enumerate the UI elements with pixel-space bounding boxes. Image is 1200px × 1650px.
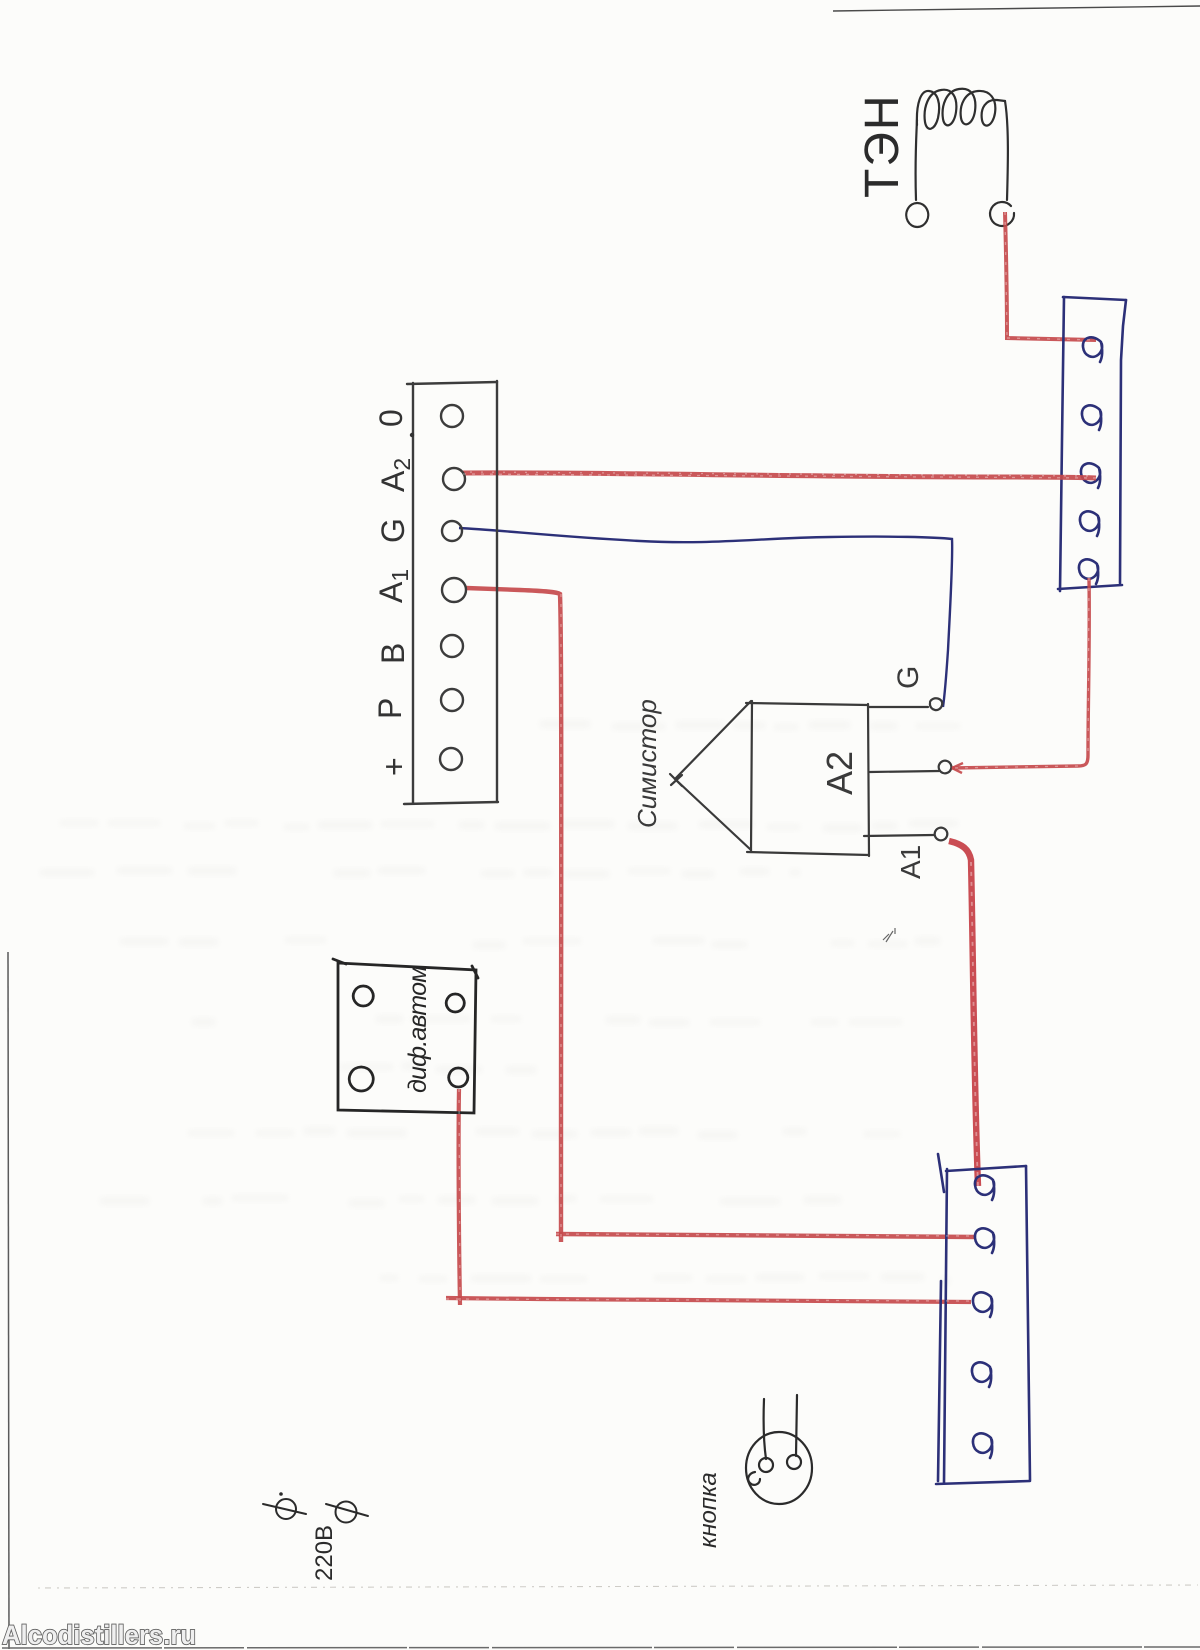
svg-text:Симистор: Симистор [632, 699, 662, 828]
svg-text:G: G [892, 666, 925, 689]
svg-text:диф.автом: диф.автом [404, 966, 432, 1093]
svg-text:кнопка: кнопка [695, 1472, 722, 1548]
svg-text:Р: Р [372, 698, 408, 719]
svg-text:220В: 220В [311, 1525, 338, 1581]
svg-text:0: 0 [373, 409, 409, 427]
svg-text:А1: А1 [895, 845, 926, 879]
svg-text:Alcodistillers.ru: Alcodistillers.ru [2, 1620, 196, 1650]
svg-text:ТЭН: ТЭН [856, 94, 909, 198]
svg-text:В: В [375, 643, 411, 664]
svg-text:А2: А2 [819, 751, 860, 795]
svg-text:+: + [376, 757, 412, 776]
svg-text:G: G [375, 518, 411, 543]
